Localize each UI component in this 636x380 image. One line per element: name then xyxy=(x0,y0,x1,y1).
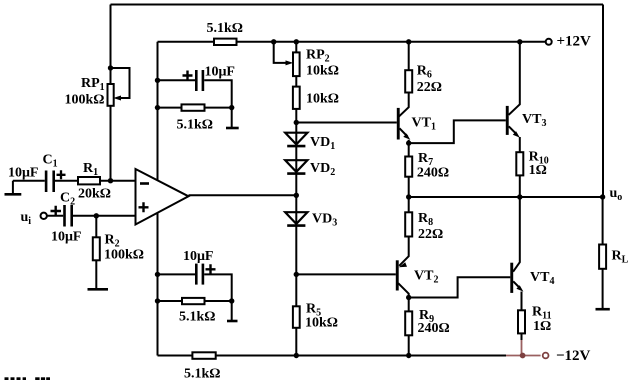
node upper bias ground junction xyxy=(229,105,234,110)
input terminal ui xyxy=(41,213,47,219)
wire upper bias cap left lead xyxy=(158,79,196,81)
wire upper bias ground stub xyxy=(231,108,233,128)
wire ui terminal to C2 xyxy=(47,215,63,217)
node R11 bottom rail brown xyxy=(520,353,526,359)
wire VT3 emitter to R10 xyxy=(519,137,521,152)
node R5 bottom rail xyxy=(294,353,299,358)
wire op-amp output to diode node xyxy=(189,194,297,196)
svg-text:10kΩ: 10kΩ xyxy=(306,64,339,79)
node upper bias cap tap xyxy=(155,78,160,83)
wire VT4 collector to output line xyxy=(513,197,520,272)
svg-text:5.1kΩ: 5.1kΩ xyxy=(177,118,214,133)
wire lower bias ground stub xyxy=(231,301,233,321)
wire C1 left lead xyxy=(13,180,45,182)
wire right border down to output node xyxy=(602,5,604,198)
svg-text:−12V: −12V xyxy=(556,348,591,364)
node output uo xyxy=(600,194,605,199)
svg-text:10μF: 10μF xyxy=(183,249,214,264)
wire +12V rail xyxy=(158,41,546,43)
node VT1 emitter xyxy=(406,140,411,145)
resistor 10k below RP2 xyxy=(293,87,300,109)
wire diode chain column xyxy=(295,42,297,307)
wire VT3 collector to +12V rail xyxy=(509,42,520,115)
watermark marks bottom left xyxy=(5,377,51,380)
svg-text:10μF: 10μF xyxy=(205,65,236,80)
resistor 5.1k feedback top xyxy=(214,39,237,45)
svg-text:20kΩ: 20kΩ xyxy=(78,187,111,202)
svg-text:+12V: +12V xyxy=(557,34,592,50)
svg-text:22Ω: 22Ω xyxy=(418,227,443,242)
wire R6 bottom to VT1 collector xyxy=(398,93,409,118)
wire feedback top rail xyxy=(111,4,604,6)
wire C1 to R1 xyxy=(55,180,78,182)
resistor R5 xyxy=(293,306,300,328)
wire R11 bottom lead black part xyxy=(521,333,523,340)
wire VT1 base from diode node xyxy=(296,122,397,124)
svg-text:10kΩ: 10kΩ xyxy=(305,315,338,330)
terminal +12V xyxy=(546,39,552,45)
wire R1 to op-amp inverting input xyxy=(100,180,136,182)
node VT2 collector xyxy=(406,295,411,300)
wire upper bias resistor right lead xyxy=(205,107,232,109)
ground upper bias xyxy=(226,127,239,130)
ground of RL xyxy=(596,308,610,311)
wire ground stub of C1 xyxy=(12,181,14,194)
wire R5 bottom lead xyxy=(295,328,297,356)
svg-text:100kΩ: 100kΩ xyxy=(65,93,105,108)
transistor VT4 xyxy=(510,263,523,293)
svg-text:5.1kΩ: 5.1kΩ xyxy=(207,21,244,36)
resistor RL xyxy=(599,245,606,269)
wire -12V rail xyxy=(158,355,507,357)
wire -12V rail brown segment xyxy=(506,355,541,357)
node non-inverting input xyxy=(94,213,99,218)
ground lower bias xyxy=(227,320,238,323)
svg-text:240Ω: 240Ω xyxy=(417,166,449,181)
wire R10 bottom to output line xyxy=(519,175,521,197)
wire lower bias cap left lead xyxy=(158,273,196,275)
svg-text:10μF: 10μF xyxy=(8,166,39,181)
node lower bias ground junction xyxy=(229,298,234,303)
resistor R7 xyxy=(405,157,412,177)
wire VT2 base from diode node xyxy=(296,273,396,275)
resistor R6 xyxy=(405,70,412,92)
ground of C1 xyxy=(5,193,22,196)
diode VD3 xyxy=(285,212,307,225)
wire bias column vertical xyxy=(157,42,159,356)
capacitor C1 xyxy=(45,170,66,192)
wire R2 top lead xyxy=(95,216,97,238)
svg-text:10kΩ: 10kΩ xyxy=(306,91,339,106)
resistor 5.1k upper bias xyxy=(182,104,205,110)
transistor VT1 xyxy=(397,108,411,140)
capacitor 10uF upper bias xyxy=(183,70,205,91)
svg-text:1Ω: 1Ω xyxy=(533,319,551,334)
wire upper bias resistor left lead xyxy=(158,107,182,109)
node junction RP1 wiper tap xyxy=(108,65,113,70)
node lower bias cap tap xyxy=(155,272,160,277)
node lower bias resistor tap xyxy=(155,298,160,303)
wire RP1 top lead xyxy=(110,5,112,85)
resistor R10 xyxy=(516,152,523,175)
node upper bias resistor tap xyxy=(155,105,160,110)
wire output line xyxy=(409,196,603,198)
resistor R8 xyxy=(405,212,412,236)
diode VD1 xyxy=(285,133,307,146)
svg-text:22Ω: 22Ω xyxy=(417,80,442,95)
resistor R9 xyxy=(405,311,412,335)
wire R9 top lead xyxy=(408,298,410,312)
wire R11 bottom lead brown part xyxy=(521,340,523,356)
node inverting input xyxy=(108,178,113,183)
node R7 R8 output junction xyxy=(406,194,411,199)
wire R7 bottom to output line xyxy=(408,177,410,197)
op-amp U1 xyxy=(136,169,189,225)
capacitor 10uF lower bias xyxy=(195,264,216,285)
wire R9 bottom lead xyxy=(408,335,410,355)
resistor R11 xyxy=(518,310,525,333)
transistor VT3 xyxy=(506,106,520,138)
svg-text:5.1kΩ: 5.1kΩ xyxy=(179,310,216,325)
terminal -12V brown xyxy=(543,353,549,359)
node VT2 base xyxy=(294,272,299,277)
wire RL top lead xyxy=(602,197,604,245)
wire VT2 collector to VT4 base xyxy=(409,277,511,297)
wire R2 bottom to ground xyxy=(95,260,97,289)
wire C2 to op-amp non-inverting input xyxy=(73,215,136,217)
wire RP1 bottom lead to inverting node xyxy=(110,106,112,181)
node VT1 base xyxy=(294,120,299,125)
svg-text:240Ω: 240Ω xyxy=(418,321,450,336)
node op-amp output xyxy=(294,193,299,198)
ground of R2 xyxy=(88,288,109,291)
wire lower bias resistor left lead xyxy=(158,300,183,302)
wire VT1 emitter to VT3 base xyxy=(409,120,506,143)
capacitor C2 xyxy=(51,205,74,227)
diode VD2 xyxy=(285,160,307,173)
node RP2 wiper rail tap xyxy=(271,39,276,44)
wire VT4 emitter to R11 xyxy=(521,292,523,311)
resistor R1 xyxy=(78,177,100,184)
svg-text:100kΩ: 100kΩ xyxy=(104,247,144,262)
node R10 VT4 output junction xyxy=(517,194,522,199)
wire R8 top lead xyxy=(408,197,410,212)
wire RL bottom to ground xyxy=(602,269,604,309)
wire R6 top lead xyxy=(408,42,410,70)
resistor R2 xyxy=(93,237,100,260)
svg-text:1Ω: 1Ω xyxy=(529,163,547,178)
wire upper bias cap right lead xyxy=(204,80,232,107)
resistor 5.1k bottom rail xyxy=(192,352,215,359)
wire VT2 collector lead xyxy=(398,283,409,297)
svg-text:10μF: 10μF xyxy=(51,230,82,245)
wire R8 bottom to VT2 emitter xyxy=(399,237,409,266)
wire lower bias cap right lead xyxy=(204,274,232,301)
potentiometer RP1 xyxy=(108,68,130,106)
wire lower bias resistor right lead xyxy=(205,300,232,302)
wire VT1 emitter lead xyxy=(408,140,410,157)
node R9 bottom rail xyxy=(406,353,411,358)
node VT3 collector rail tap xyxy=(517,39,522,44)
resistor 5.1k lower bias xyxy=(182,298,205,304)
potentiometer RP2 xyxy=(274,42,300,76)
svg-text:5.1kΩ: 5.1kΩ xyxy=(184,367,221,380)
node RP2 top rail tap xyxy=(294,39,299,44)
node R6 rail tap xyxy=(406,39,411,44)
transistor VT2 xyxy=(396,260,407,290)
